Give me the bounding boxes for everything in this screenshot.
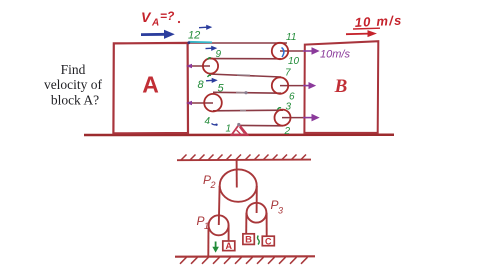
svg-text:A: A <box>151 18 159 29</box>
svg-text:4: 4 <box>205 116 211 127</box>
block B <box>304 41 378 133</box>
hanging block A <box>223 241 235 251</box>
rope P2 right to P3 axle <box>256 186 258 213</box>
blue rotation mark in top pulley <box>282 48 284 58</box>
svg-text:V: V <box>141 9 152 25</box>
left upper movable pulley <box>203 58 218 73</box>
rope P3 right to block C <box>266 213 268 237</box>
anchor triangle (fixed support) <box>232 125 248 136</box>
rope segment 12 (top, A to pulley 11) <box>189 42 287 44</box>
svg-text:2: 2 <box>210 180 216 190</box>
gray mark on rope 3 <box>240 110 246 112</box>
svg-text:10m/s: 10m/s <box>320 49 350 61</box>
right bottom pulley <box>275 110 291 126</box>
teal highlight on rope 12 <box>189 41 213 44</box>
svg-text:5: 5 <box>218 83 225 95</box>
green tick at left pulley top tangent <box>208 58 212 60</box>
svg-text:=?: =? <box>160 9 175 23</box>
purple arrow into B (middle) <box>303 85 310 87</box>
gray mark on rope 5 <box>236 92 247 94</box>
svg-text:Find: Find <box>61 62 86 77</box>
pulley P3 <box>247 203 267 223</box>
right top pulley (11) <box>272 43 288 59</box>
rope segment 7 (pulley 8 to pulley 6) <box>209 74 281 77</box>
velocity arrow of block B (red) <box>346 31 376 37</box>
hanging block B <box>243 234 254 245</box>
gray dot on rope 5 <box>244 91 247 94</box>
rope P1 left anchored to floor <box>207 225 209 256</box>
svg-text:B: B <box>334 76 348 97</box>
purple arrowhead at A upper axle <box>186 64 192 69</box>
green down arrow at block A <box>213 242 219 253</box>
svg-text:9: 9 <box>216 49 222 60</box>
rope segment 1 (pulley 2 to anchor) <box>240 124 283 126</box>
axle left pulley upper to A <box>189 65 210 67</box>
left lower movable pulley <box>204 94 222 112</box>
rope segment 9 (pulley 11 to pulley 8) <box>210 58 281 60</box>
blue squiggle at 4 <box>212 124 217 125</box>
right middle pulley <box>272 77 288 93</box>
svg-text:10: 10 <box>288 56 300 67</box>
label VA=? (red) <box>141 9 180 29</box>
svg-text:A: A <box>142 72 159 98</box>
svg-text:11: 11 <box>286 32 296 43</box>
axle right pulley middle to B <box>280 85 303 87</box>
svg-text:3: 3 <box>286 102 292 113</box>
question text "Find velocity of block A?" <box>44 62 103 108</box>
velocity arrow of block A (blue) <box>141 31 174 39</box>
green tick at bottom right pulley tangent <box>278 108 282 110</box>
axle left pulley lower to A <box>189 102 213 104</box>
svg-text:8: 8 <box>198 79 205 91</box>
hanger rod of pulley P2 <box>236 160 238 188</box>
svg-text:velocity of: velocity of <box>44 77 103 92</box>
green squiggle between B and C <box>258 236 260 245</box>
hanging block C <box>262 236 274 246</box>
floor hatching <box>180 257 308 264</box>
block A <box>113 43 188 133</box>
axle right pulley bottom to B <box>282 117 303 119</box>
gray dot at anchor apex <box>237 123 240 126</box>
svg-text:C: C <box>265 237 272 247</box>
ceiling line (bottom diagram) <box>177 159 311 162</box>
rope P2 left to P1 axle <box>218 186 221 225</box>
ceiling hatching <box>181 155 306 161</box>
svg-text:1: 1 <box>204 221 209 231</box>
svg-text:7: 7 <box>285 68 291 79</box>
purple arrow into B (bottom) <box>303 117 313 119</box>
svg-text:12: 12 <box>188 30 200 42</box>
svg-text:block A?: block A? <box>51 93 99 108</box>
ground line (top diagram) <box>84 133 394 136</box>
pulley P1 <box>209 215 229 235</box>
svg-text:3: 3 <box>278 206 283 216</box>
floor line (bottom diagram) <box>175 255 315 258</box>
rope segment 5 (pulley 6 to pulley 4) <box>213 91 281 94</box>
svg-text:2: 2 <box>284 126 291 137</box>
blue vector arrow at 5 <box>206 79 213 82</box>
svg-text:10 m/s: 10 m/s <box>354 13 402 30</box>
rope P3 left to block B <box>245 213 247 234</box>
green tick at left pulley bottom tangent <box>208 75 212 77</box>
underline of 10 m/s <box>353 27 380 30</box>
svg-text:B: B <box>245 235 252 246</box>
svg-text:A: A <box>226 241 233 251</box>
svg-text:1: 1 <box>226 124 232 135</box>
label 10 m/s (red, above block B) <box>354 13 402 30</box>
blue vector arrow at 9 <box>206 47 213 49</box>
purple arrowhead at A lower axle <box>186 101 192 106</box>
blue vector arrow above 12 <box>199 26 208 29</box>
node dot at A top right corner <box>187 41 190 44</box>
rope segment 3 (pulley 4 to pulley 2) <box>213 109 283 112</box>
pulley P2 <box>220 169 257 201</box>
purple arrow into B (top) <box>303 50 313 52</box>
rope P1 right to block A <box>228 225 230 241</box>
axle right pulley top to B <box>280 50 303 52</box>
gray mark on rope 7 <box>237 74 250 76</box>
